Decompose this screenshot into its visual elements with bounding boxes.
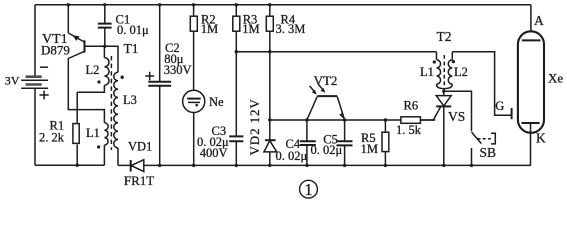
neon lamp Ne <box>183 90 205 165</box>
node C2 bottom rail <box>158 164 161 167</box>
svg-text:FR1T: FR1T <box>124 173 154 188</box>
svg-text:L3: L3 <box>123 93 137 107</box>
svg-text:L1: L1 <box>86 126 100 140</box>
resistor R1 2.2k <box>73 92 79 165</box>
node Ne bottom rail <box>192 164 195 167</box>
svg-text:Ne: Ne <box>209 95 224 109</box>
transformer T2 winding L2 <box>444 52 452 92</box>
thyristor VS <box>433 91 451 165</box>
svg-text:VD1: VD1 <box>128 140 152 154</box>
svg-text:1. 5k: 1. 5k <box>396 123 422 137</box>
svg-text:L2: L2 <box>454 65 468 79</box>
wire VS anode to SB <box>444 91 472 131</box>
circled figure number 1 <box>300 180 318 199</box>
node VD2 top junction <box>268 118 271 121</box>
node top rail / R2 <box>192 3 195 6</box>
svg-text:L2: L2 <box>86 63 100 77</box>
svg-text:SB: SB <box>480 145 497 160</box>
capacitor C5 0.02u <box>337 120 353 165</box>
node R5 bottom rail <box>384 164 387 167</box>
node top rail / emitter <box>67 3 70 6</box>
node T2 L1 dot <box>433 60 436 63</box>
svg-text:A: A <box>534 13 544 28</box>
pushbutton SB <box>472 132 496 165</box>
transformer T2 core <box>443 55 445 87</box>
node VT2 right leg / C5 <box>343 118 346 121</box>
node VD2 bottom rail <box>268 164 271 167</box>
svg-text:R6: R6 <box>404 99 419 113</box>
svg-text:1: 1 <box>304 180 313 199</box>
zener diode VD2 12V <box>264 52 277 166</box>
svg-text:VD2 12V: VD2 12V <box>247 98 262 155</box>
wire base node to L3 top <box>105 46 118 72</box>
phototransistor VT2 <box>307 84 345 120</box>
svg-text:1M: 1M <box>242 22 259 36</box>
svg-text:1M: 1M <box>361 142 378 156</box>
wire emitter to top rail <box>67 5 69 33</box>
svg-text:D879: D879 <box>41 43 70 58</box>
diode VD1 <box>131 160 144 172</box>
node top rail / C2 <box>158 3 161 6</box>
svg-text:1M: 1M <box>201 22 218 36</box>
xenon flash tube Xe <box>518 31 544 165</box>
transformer T1 winding L2 <box>77 46 109 92</box>
node SB bottom rail <box>470 164 473 167</box>
node R5 top <box>384 118 387 121</box>
transformer T1 winding L1 <box>104 123 108 165</box>
transformer T1 winding L3 <box>114 72 118 165</box>
svg-text:K: K <box>536 130 546 145</box>
node C5 bottom rail <box>343 164 346 167</box>
wire top rail <box>35 4 531 6</box>
resistor R6 1.5k <box>401 117 434 124</box>
node VS bottom rail <box>442 164 445 167</box>
wire mid rail y52 <box>236 51 436 53</box>
battery GB 3V <box>21 67 49 165</box>
node T2 common / VS anode <box>442 90 445 93</box>
svg-text:T1: T1 <box>124 41 139 56</box>
svg-text:330V: 330V <box>164 63 192 77</box>
node R4/VD2 junction <box>268 50 271 53</box>
node C3 bottom rail <box>235 164 238 167</box>
svg-text:3V: 3V <box>5 73 20 87</box>
node top rail / R4 <box>268 3 271 6</box>
transformer T1 core <box>110 56 112 150</box>
transformer T2 winding L1 <box>437 52 445 89</box>
wire left rail (battery top lead) <box>34 5 36 77</box>
capacitor C4 0.02u <box>300 120 316 165</box>
wire anode lead <box>530 5 532 41</box>
svg-text:VT2: VT2 <box>314 73 338 88</box>
svg-text:T2: T2 <box>437 29 452 44</box>
node T2 L2 dot <box>452 60 455 63</box>
svg-text:3. 3M: 3. 3M <box>276 22 306 36</box>
svg-text:VS: VS <box>448 109 465 124</box>
node top rail / C1 <box>103 3 106 6</box>
capacitor C3 0.02u 400V <box>229 52 243 166</box>
capacitor C2 80u 330V <box>145 5 171 166</box>
node R3/C3 junction <box>235 50 238 53</box>
svg-text:G: G <box>495 99 504 113</box>
svg-text:L1: L1 <box>420 65 434 79</box>
wire bottom rail left segment <box>35 164 105 166</box>
node R1 bottom rail <box>76 164 79 167</box>
node L1 polarity dot <box>97 145 100 148</box>
svg-text:Xe: Xe <box>548 71 563 86</box>
node VT2 left leg / C4 <box>305 118 308 121</box>
resistor R3 1M <box>233 5 240 52</box>
svg-text:2. 2k: 2. 2k <box>39 130 65 144</box>
transistor VT1 <box>68 33 105 59</box>
node C4 bottom rail <box>305 164 308 167</box>
svg-text:0. 01μ: 0. 01μ <box>117 23 149 37</box>
wire bottom rail right segment <box>118 164 531 166</box>
node base junction <box>103 45 106 48</box>
resistor R5 1M <box>382 120 389 165</box>
svg-text:0. 02μ: 0. 02μ <box>276 149 308 163</box>
trigger electrode G tick <box>511 108 513 119</box>
node L3 polarity dot <box>121 76 124 79</box>
capacitor C1 0.01u <box>98 5 112 47</box>
resistor R4 3.3M <box>266 5 273 52</box>
resistor R2 1M <box>190 5 197 91</box>
svg-text:400V: 400V <box>200 146 228 160</box>
svg-text:0. 02μ: 0. 02μ <box>311 143 343 157</box>
wire collector down and to L1 <box>68 58 104 123</box>
node top rail / R3 <box>235 3 238 6</box>
wire trigger timing y119 <box>270 119 435 121</box>
node L2 polarity dot <box>97 80 100 83</box>
wire T2 secondary to trigger electrode <box>452 52 511 116</box>
